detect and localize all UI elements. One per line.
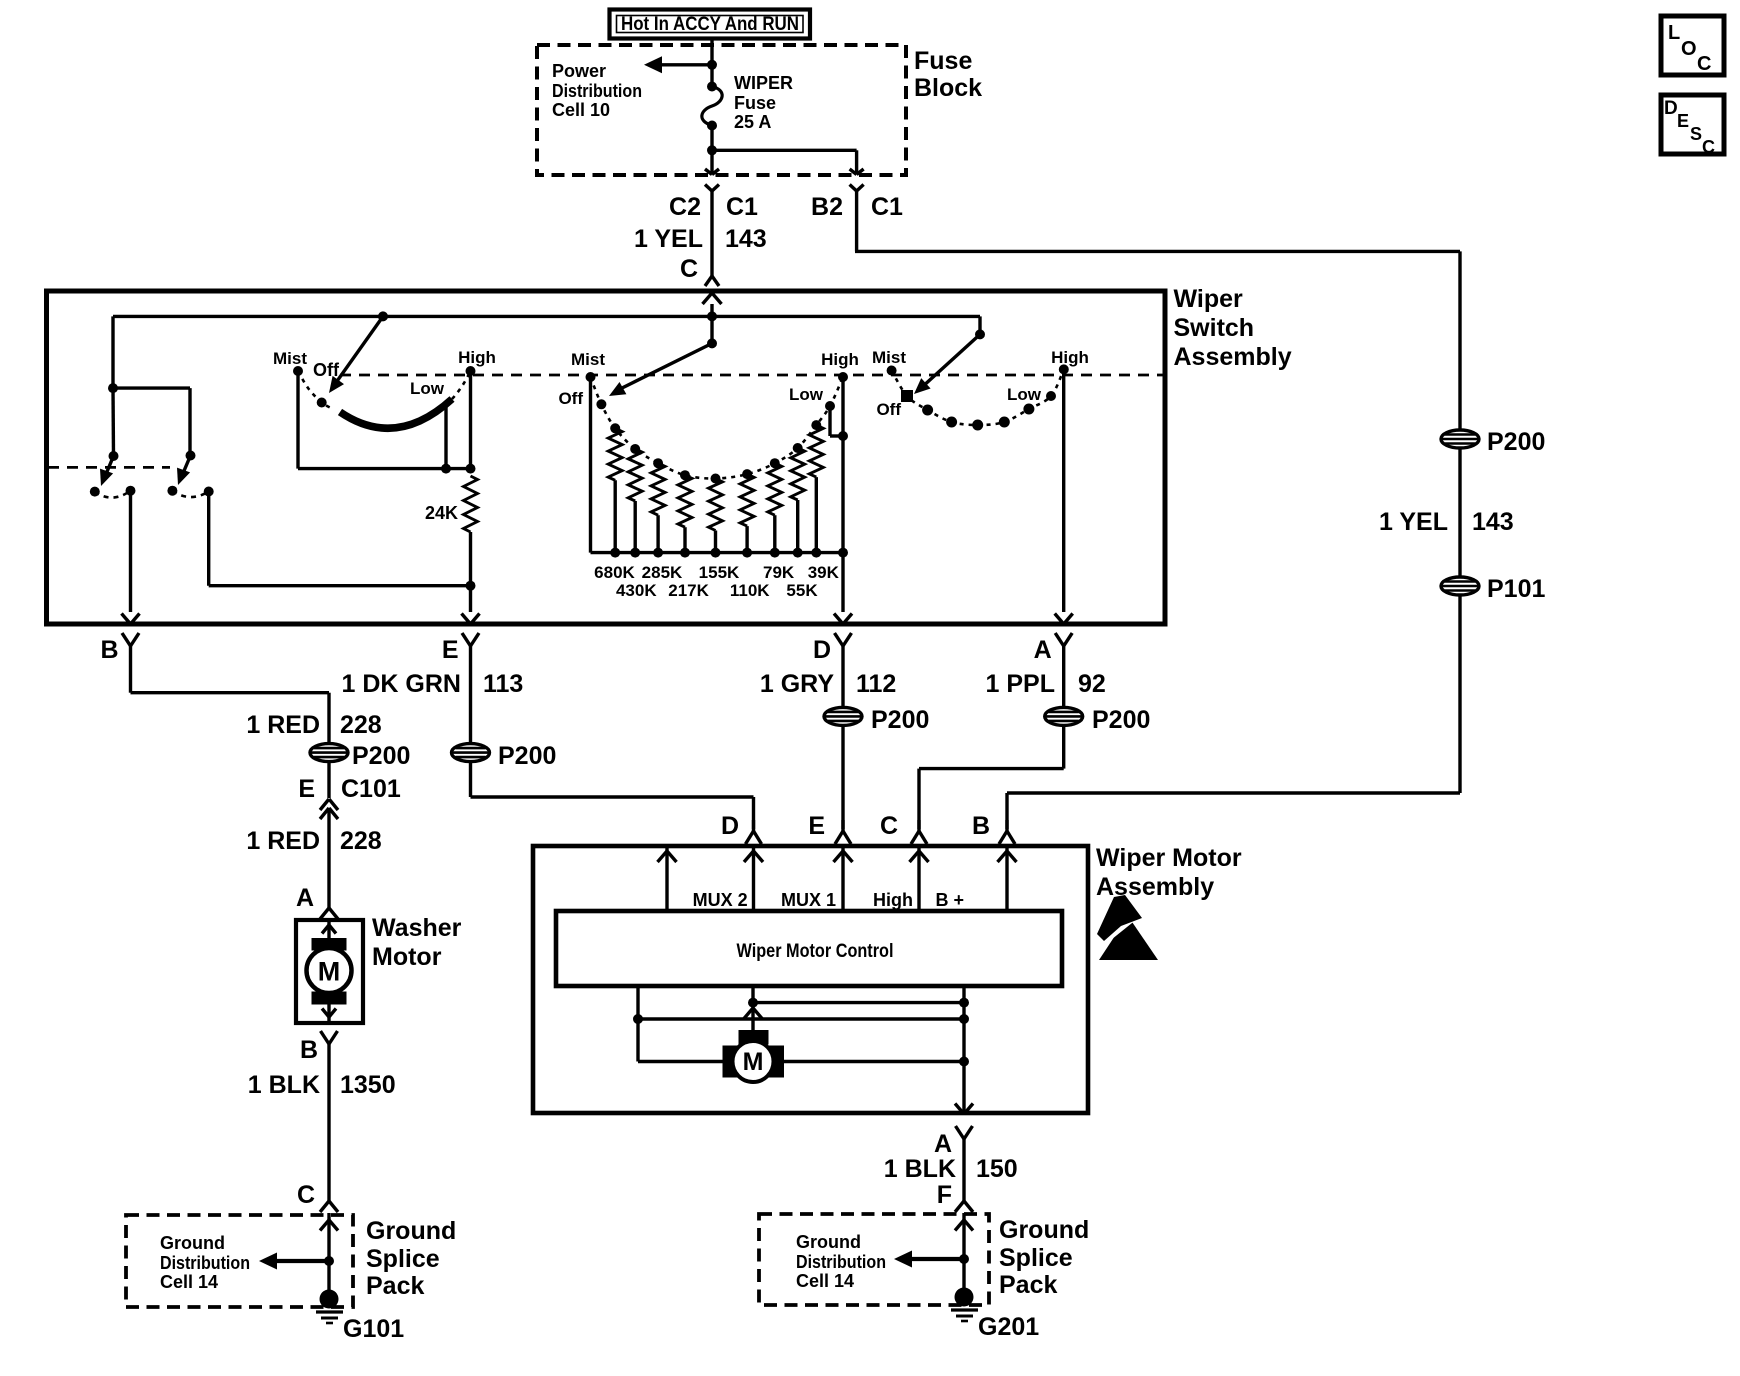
svg-text:Cell 14: Cell 14 xyxy=(160,1272,218,1292)
power distribution cell 10 note xyxy=(552,61,642,120)
svg-text:1350: 1350 xyxy=(340,1071,396,1099)
resistor 39K xyxy=(809,425,823,552)
pin label MUX 1 xyxy=(781,890,836,910)
ground distribution arrow (left) xyxy=(259,1253,329,1270)
junction washer feed xyxy=(108,383,118,393)
wire S2 contact to E node xyxy=(209,492,468,586)
fuse WIPER 25A xyxy=(702,73,793,132)
svg-text:79K: 79K xyxy=(763,563,795,582)
svg-text:1 RED: 1 RED xyxy=(246,711,320,739)
label 55K xyxy=(786,581,818,600)
label 1 RED 228 lower xyxy=(246,827,381,855)
ground distribution cell 14 note (left) xyxy=(160,1233,250,1292)
svg-text:E: E xyxy=(442,636,459,664)
arrow wire exits fuse block right xyxy=(850,169,864,175)
resistor 110K xyxy=(740,474,754,552)
wire control to A output xyxy=(962,986,965,1111)
rotary1 wire Mist down xyxy=(296,371,299,469)
svg-text:E: E xyxy=(1677,111,1689,131)
washer motor box xyxy=(296,920,363,1023)
rotary2 contact Off xyxy=(558,389,606,409)
resistor 55K xyxy=(791,448,805,553)
wire motor right lead xyxy=(782,1060,964,1063)
svg-text:155K: 155K xyxy=(699,563,740,582)
svg-text:WIPER: WIPER xyxy=(734,73,793,93)
junction internal left xyxy=(633,1014,643,1024)
svg-text:Wiper: Wiper xyxy=(1174,285,1243,313)
svg-text:Distribution: Distribution xyxy=(796,1252,886,1272)
svg-text:110K: 110K xyxy=(730,581,770,600)
junction motor right xyxy=(959,1057,969,1067)
svg-text:Ground: Ground xyxy=(160,1233,225,1253)
rotary3 wiper blade xyxy=(914,334,980,394)
rotary2 arc contact 2 xyxy=(630,444,640,454)
connector P200 washer xyxy=(310,742,410,770)
ground distribution arrow (right) xyxy=(894,1251,964,1268)
rotary2 contact Mist xyxy=(571,350,605,382)
junction internal center xyxy=(748,998,758,1008)
wire into ground splice pack 2 xyxy=(962,1213,965,1293)
rotary1 low arc (solid) xyxy=(340,399,452,428)
wire hot feed into fuse block xyxy=(710,37,713,87)
svg-text:Splice: Splice xyxy=(366,1245,440,1273)
arrow wire exits switch at A xyxy=(1055,614,1073,625)
svg-text:G201: G201 xyxy=(978,1313,1039,1341)
svg-text:Block: Block xyxy=(914,74,982,102)
pin label D xyxy=(813,636,831,664)
svg-text:A: A xyxy=(934,1130,952,1158)
svg-text:Switch: Switch xyxy=(1174,314,1255,342)
svg-text:P200: P200 xyxy=(871,706,929,734)
svg-text:39K: 39K xyxy=(808,563,840,582)
connector A motor output xyxy=(956,1126,973,1152)
svg-text:1 BLK: 1 BLK xyxy=(248,1071,320,1099)
rotary2 wire High to D output xyxy=(841,377,844,612)
svg-text:Off: Off xyxy=(876,400,901,419)
svg-text:M: M xyxy=(318,957,341,987)
junction ground splice 1 xyxy=(324,1256,334,1266)
arrow enters ground splice 2 xyxy=(955,1220,973,1231)
wire branch to B2-C1 terminal xyxy=(712,150,857,174)
svg-text:143: 143 xyxy=(725,225,767,253)
svg-text:Distribution: Distribution xyxy=(552,81,642,101)
rotary3 arc contact 4 xyxy=(999,417,1010,428)
wire motor left lead xyxy=(638,1060,724,1063)
ground splice pack 1 title xyxy=(366,1217,456,1300)
svg-text:1 YEL: 1 YEL xyxy=(634,225,703,253)
svg-text:C1: C1 xyxy=(726,193,758,221)
connector terminal B2/C1 xyxy=(850,185,864,192)
svg-text:Ground: Ground xyxy=(366,1217,456,1245)
svg-text:1 DK GRN: 1 DK GRN xyxy=(342,670,461,698)
label 1 YEL 143 right bus xyxy=(1379,508,1514,536)
wire right bus to wiper motor B input xyxy=(1007,595,1460,829)
svg-text:High: High xyxy=(458,348,496,367)
rotary3 arc contact 5 xyxy=(1023,404,1034,415)
svg-text:A: A xyxy=(296,884,314,912)
pin label High xyxy=(873,890,913,910)
svg-text:Washer: Washer xyxy=(372,914,462,942)
svg-text:D: D xyxy=(813,636,831,664)
connector P200 dk grn xyxy=(452,742,557,770)
rotary mechanical linkage (dashed) xyxy=(340,374,1163,377)
wire C entry to delay blade pivot xyxy=(710,304,713,343)
washer motor title xyxy=(372,914,462,971)
wire fuse output to C2-C1 terminal xyxy=(710,126,713,175)
wire control to motor top xyxy=(744,986,762,1031)
pin label A washer xyxy=(296,884,314,912)
svg-text:G101: G101 xyxy=(343,1315,404,1343)
connector B washer motor xyxy=(321,1031,338,1058)
svg-text:P200: P200 xyxy=(1487,428,1545,456)
rotary2 arc contact 4 xyxy=(680,470,690,480)
pin label A motor output xyxy=(934,1130,952,1158)
ground G101 xyxy=(316,1290,404,1344)
svg-text:C: C xyxy=(297,1181,315,1209)
svg-text:228: 228 xyxy=(340,711,382,739)
label 79K xyxy=(763,563,795,582)
svg-text:Off: Off xyxy=(313,360,340,380)
wire C to motor control xyxy=(917,848,920,911)
rotary3 dashed arc xyxy=(892,369,1064,425)
pin label D motor input xyxy=(721,812,739,840)
label 680K xyxy=(594,563,635,582)
location reference box LOC xyxy=(1661,16,1724,75)
junction resistor 110K on rail xyxy=(742,548,752,558)
svg-text:Fuse: Fuse xyxy=(914,47,972,75)
arrow wire exits motor assembly at A xyxy=(955,1104,973,1115)
svg-text:D: D xyxy=(721,812,739,840)
connector E at switch assembly xyxy=(462,633,479,660)
wire B to motor control xyxy=(1005,848,1008,911)
junction delay blade pivot xyxy=(707,338,717,348)
connector P101 xyxy=(1441,575,1545,603)
wire B to washer motor xyxy=(131,660,330,752)
wiper switch assembly box xyxy=(47,291,1166,624)
rotary2 wire Low to High xyxy=(830,406,843,436)
junction E node xyxy=(466,581,476,591)
junction ground splice 2 xyxy=(959,1254,969,1264)
wiper motor control box xyxy=(556,911,1062,986)
pin label A xyxy=(1034,636,1052,664)
rotary2 wire Mist down xyxy=(589,377,592,553)
power distribution arrow xyxy=(644,56,712,73)
resistor 79K xyxy=(768,463,782,552)
rotary1 contact High xyxy=(458,348,496,376)
junction rotary1 low xyxy=(441,464,451,474)
connector B wiper motor input xyxy=(999,820,1015,844)
arrow wire exits switch at D xyxy=(834,614,852,625)
washer mechanical link (dashed) xyxy=(48,466,170,469)
wiper motor assembly title xyxy=(1096,844,1242,901)
rotary3 contact Low xyxy=(1007,385,1056,404)
svg-text:55K: 55K xyxy=(786,581,818,600)
pin label E C101 xyxy=(298,775,401,803)
svg-text:P101: P101 xyxy=(1487,575,1545,603)
svg-text:P200: P200 xyxy=(498,742,556,770)
svg-text:Wiper Motor: Wiper Motor xyxy=(1096,844,1242,872)
washer switch S1 pivot xyxy=(109,451,119,461)
svg-text:113: 113 xyxy=(483,670,523,698)
rotary2 dashed resistor arc xyxy=(591,377,844,479)
fuse block (dashed) xyxy=(537,45,906,175)
wire S1 contact to B output xyxy=(129,491,132,612)
wire 1 YEL 143 to wiper switch xyxy=(710,191,713,277)
svg-text:Wiper Motor Control: Wiper Motor Control xyxy=(737,940,894,962)
label 1 YEL 143 xyxy=(634,225,767,253)
rotary2 common rail xyxy=(591,551,844,554)
pin label F xyxy=(937,1181,952,1209)
connector D at switch assembly xyxy=(835,633,852,660)
svg-text:Splice: Splice xyxy=(999,1244,1073,1272)
washer switch S2 blade xyxy=(177,456,191,486)
junction resistor 430K on rail xyxy=(630,548,640,558)
svg-text:B: B xyxy=(300,1036,318,1064)
resistor 680K xyxy=(608,428,622,552)
rotary3 contact Off xyxy=(876,390,913,419)
label 155K xyxy=(699,563,740,582)
svg-text:Mist: Mist xyxy=(872,348,906,367)
rotary1 label Low xyxy=(410,379,445,398)
arrow E wire enters motor assembly xyxy=(834,851,853,862)
junction resistor 79K on rail xyxy=(770,548,780,558)
svg-text:Fuse: Fuse xyxy=(734,93,776,113)
ESD symbol xyxy=(1097,895,1158,960)
svg-text:Pack: Pack xyxy=(366,1272,424,1300)
fuse block title xyxy=(914,47,982,102)
pin labels B2 C1 xyxy=(811,193,903,221)
svg-text:Cell 14: Cell 14 xyxy=(796,1271,854,1291)
junction resistor 285K on rail xyxy=(653,548,663,558)
rotary2 label Low xyxy=(789,385,824,404)
wire control to motor left xyxy=(636,986,639,1062)
resistor 430K xyxy=(628,449,642,553)
svg-text:Low: Low xyxy=(410,379,445,398)
svg-text:B: B xyxy=(100,636,118,664)
svg-text:150: 150 xyxy=(976,1155,1018,1183)
resistor 285K xyxy=(651,463,665,552)
svg-text:F: F xyxy=(937,1181,952,1209)
junction resistor 39K on rail xyxy=(811,548,821,558)
svg-text:E: E xyxy=(808,812,825,840)
ground splice pack 2 title xyxy=(999,1216,1089,1299)
arrow wire exits switch at B xyxy=(122,614,140,625)
svg-text:High: High xyxy=(821,350,859,369)
wiper motor assembly box xyxy=(533,846,1088,1113)
svg-text:217K: 217K xyxy=(668,581,709,600)
pin label C ground xyxy=(297,1181,315,1209)
washer motor brush top xyxy=(312,938,347,951)
junction rail right corner xyxy=(975,329,985,339)
label 1 BLK 1350 xyxy=(248,1071,396,1099)
wire 1 BLK 1350 xyxy=(327,1058,330,1201)
rotary2 arc contact 3 xyxy=(653,458,663,468)
wire D to motor control xyxy=(752,848,755,911)
pin label B washer xyxy=(300,1036,318,1064)
wire 1 YEL 143 right bus xyxy=(1458,448,1461,577)
label 430K xyxy=(616,581,657,600)
rotary1 dashed arc Mist-Off xyxy=(298,371,333,409)
label 1 GRY 112 xyxy=(760,670,896,698)
wiper motor brush right xyxy=(769,1046,784,1078)
internal wire assembly case to control xyxy=(658,848,677,911)
ground G201 xyxy=(951,1288,1039,1342)
pin label C motor input xyxy=(880,812,898,840)
svg-text:C: C xyxy=(680,255,698,283)
connector C wiper motor input xyxy=(911,820,927,844)
rotary1 contact Mist xyxy=(273,349,307,376)
rotary1 wire low-arc down xyxy=(444,403,447,469)
label 1 PPL 92 xyxy=(986,670,1106,698)
svg-text:Distribution: Distribution xyxy=(160,1253,250,1273)
rotary2 arc contact 5 xyxy=(711,474,721,484)
arrow wire enters switch assembly xyxy=(703,293,722,304)
connector C ground splice xyxy=(320,1201,338,1212)
svg-text:B: B xyxy=(972,812,990,840)
pin label C xyxy=(680,255,698,283)
svg-text:25 A: 25 A xyxy=(734,112,771,132)
connector P200 ppl xyxy=(1045,706,1151,734)
svg-text:285K: 285K xyxy=(642,563,683,582)
washer motor wire out xyxy=(322,1002,336,1023)
rotary3 arc contact 2 xyxy=(946,417,957,428)
svg-text:1 RED: 1 RED xyxy=(246,827,320,855)
wire D output to motor E input xyxy=(841,726,844,829)
wire A output to motor C input xyxy=(919,726,1064,829)
pin label B+ xyxy=(935,890,964,910)
resistor 24K xyxy=(425,476,478,532)
rotary1 dashed arc to High xyxy=(452,371,471,399)
power feed label box (Hot In ACCY And RUN) xyxy=(610,10,811,39)
rotary1 contact Off xyxy=(313,360,340,408)
svg-text:Power: Power xyxy=(552,61,606,81)
junction resistor 680K on rail xyxy=(610,548,620,558)
svg-text:M: M xyxy=(743,1048,764,1076)
svg-text:1 YEL: 1 YEL xyxy=(1379,508,1448,536)
svg-text:E: E xyxy=(298,775,315,803)
resistor 155K xyxy=(709,479,723,553)
wiper motor brush left xyxy=(723,1046,738,1078)
svg-text:High: High xyxy=(1051,348,1089,367)
junction rotary1 high xyxy=(466,464,476,474)
connector A washer motor xyxy=(320,908,338,919)
rotary2 arc contact 8 xyxy=(793,443,803,453)
svg-text:1 GRY: 1 GRY xyxy=(760,670,834,698)
pin label B xyxy=(100,636,118,664)
label 217K xyxy=(668,581,709,600)
svg-text:143: 143 xyxy=(1472,508,1514,536)
rotary2 wiper blade xyxy=(609,343,712,396)
wiper switch assembly title xyxy=(1174,285,1292,371)
rotary3 arc contact 3 xyxy=(972,420,983,431)
junction internal right upper xyxy=(959,998,969,1008)
junction at power distribution tap xyxy=(707,60,717,70)
wire E to motor control xyxy=(841,848,844,911)
svg-text:Low: Low xyxy=(1007,385,1042,404)
junction internal right lower xyxy=(959,1014,969,1024)
wire 24K to E output xyxy=(469,532,472,612)
internal bus upper xyxy=(753,1001,964,1004)
junction resistor 217K on rail xyxy=(680,548,690,558)
svg-text:Cell 10: Cell 10 xyxy=(552,100,610,120)
svg-text:Ground: Ground xyxy=(999,1216,1089,1244)
svg-text:92: 92 xyxy=(1078,670,1106,698)
arrow B wire enters motor assembly xyxy=(998,851,1017,862)
junction rotary2 low-high xyxy=(838,431,848,441)
connector A at switch assembly xyxy=(1055,633,1072,660)
svg-text:B2: B2 xyxy=(811,193,843,221)
junction rail C entry xyxy=(707,311,717,321)
ground splice pack 1 (dashed) xyxy=(126,1215,353,1307)
svg-text:High: High xyxy=(873,890,913,910)
svg-text:P200: P200 xyxy=(1092,706,1150,734)
pin label E motor input xyxy=(808,812,825,840)
wire E output to motor D input xyxy=(471,762,754,829)
pin label MUX 2 xyxy=(693,890,748,910)
arrow wire exits fuse block left xyxy=(705,169,719,175)
svg-text:Mist: Mist xyxy=(273,349,307,368)
washer motor M xyxy=(307,948,352,993)
connector P200 gry xyxy=(824,706,929,734)
wire 1 PPL 92 xyxy=(1062,660,1065,707)
rotary1 wire High down xyxy=(469,371,472,469)
svg-text:C1: C1 xyxy=(871,193,903,221)
wiper motor M xyxy=(733,1041,774,1082)
svg-text:228: 228 xyxy=(340,827,382,855)
svg-text:B +: B + xyxy=(935,890,964,910)
svg-text:C101: C101 xyxy=(341,775,401,803)
internal bus lower xyxy=(638,1017,964,1020)
svg-text:C2: C2 xyxy=(669,193,701,221)
rotary3 wire High to A output xyxy=(1062,369,1065,612)
wire 1 GRY 112 xyxy=(841,660,844,707)
rotary2 arc contact 6 xyxy=(742,469,752,479)
svg-text:Assembly: Assembly xyxy=(1096,873,1214,901)
svg-text:Ground: Ground xyxy=(796,1232,861,1252)
resistor 217K xyxy=(678,475,692,552)
washer switch S1 contacts xyxy=(90,486,136,498)
connector D wiper motor input xyxy=(746,820,762,844)
svg-text:1 PPL: 1 PPL xyxy=(986,670,1055,698)
svg-text:112: 112 xyxy=(856,670,896,698)
svg-text:MUX 2: MUX 2 xyxy=(693,890,748,910)
connector B at switch assembly xyxy=(122,633,139,660)
wiper motor control title xyxy=(737,940,894,962)
pin labels C2 C1 xyxy=(669,193,758,221)
svg-text:Motor: Motor xyxy=(372,943,442,971)
connector E wiper motor input xyxy=(835,820,851,844)
description reference box DESC xyxy=(1661,95,1724,157)
rotary1 common rail xyxy=(298,467,471,470)
wire 1 RED 228 to washer motor xyxy=(327,810,330,908)
connector F ground splice xyxy=(955,1201,973,1212)
ground distribution cell 14 note (right) xyxy=(796,1232,886,1291)
label 1 RED 228 xyxy=(246,711,381,739)
svg-text:A: A xyxy=(1034,636,1052,664)
arrow enters ground splice 1 xyxy=(320,1220,338,1231)
svg-text:D: D xyxy=(1664,98,1678,119)
rotary3 arc contact 1 xyxy=(922,405,933,416)
switch feed rail xyxy=(113,316,980,388)
svg-text:C: C xyxy=(1702,137,1715,157)
svg-text:Hot In ACCY And RUN: Hot In ACCY And RUN xyxy=(621,14,799,35)
wire into ground splice pack 1 xyxy=(327,1213,330,1295)
arrow C wire enters motor assembly xyxy=(910,851,929,862)
wire P200 to C101 xyxy=(327,762,330,798)
connector terminal C2/C1 xyxy=(705,185,719,192)
svg-text:Low: Low xyxy=(789,385,824,404)
wiper motor brush top xyxy=(739,1030,769,1045)
